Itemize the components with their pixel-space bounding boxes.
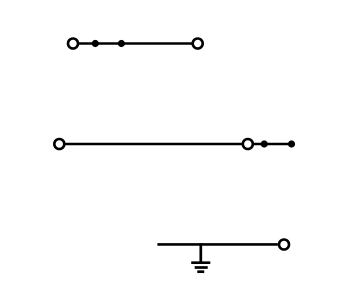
terminal (open circle, middle left) (54, 139, 64, 149)
junction dot (middle, end) (288, 140, 295, 147)
wire (middle level conductor, long segment) (66, 143, 242, 146)
terminal (open circle, top right) (193, 39, 203, 49)
wire (bottom level conductor) (157, 243, 277, 246)
wire (top level conductor) (79, 42, 192, 45)
terminal (open circle, middle right) (243, 139, 253, 149)
wire (middle level, short right segment) (254, 143, 292, 146)
ground (191, 263, 210, 272)
terminal (open circle, bottom right) (279, 240, 289, 250)
junction dot (top, second) (118, 40, 125, 47)
junction dot (top, first) (92, 40, 99, 47)
terminal (open circle, top left) (68, 39, 78, 49)
wire (ground stem) (199, 243, 202, 263)
junction dot (middle, first) (261, 140, 268, 147)
